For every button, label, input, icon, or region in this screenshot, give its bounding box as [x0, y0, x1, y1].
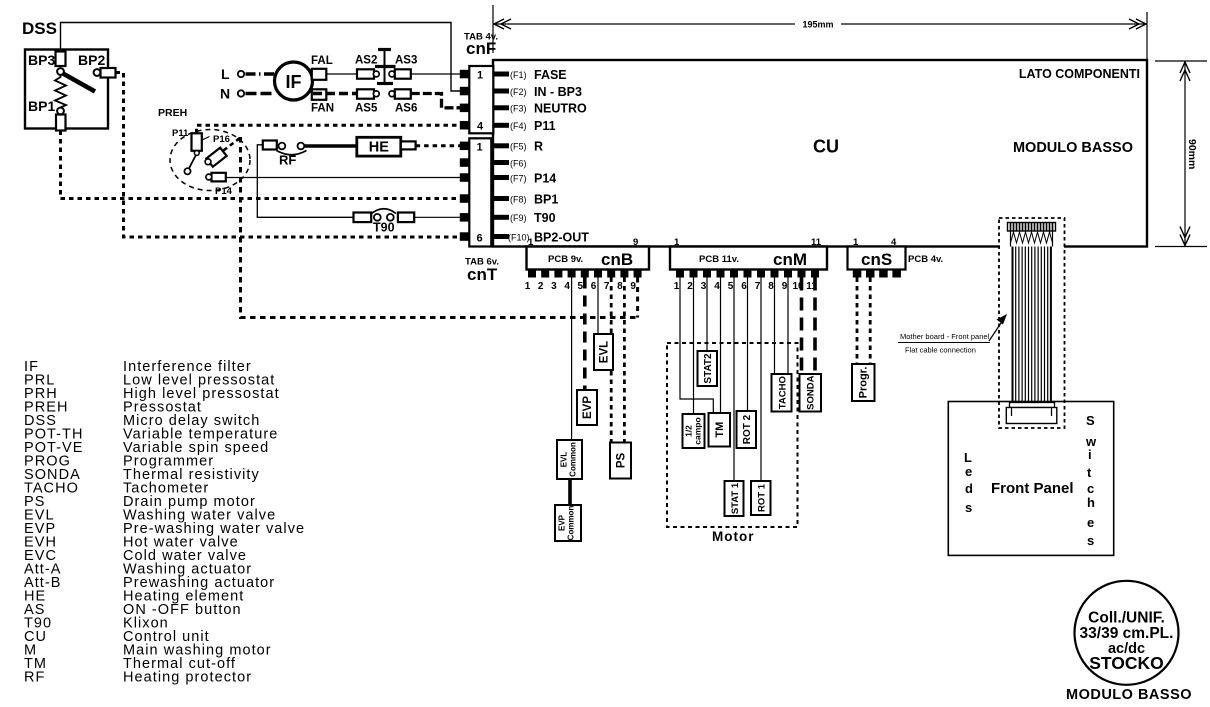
- cnB pins row: [528, 270, 642, 278]
- svg-text:11: 11: [811, 237, 822, 248]
- svg-text:FASE: FASE: [534, 68, 567, 82]
- drain pump PS: [610, 443, 631, 479]
- push button AS shaft: [384, 50, 386, 85]
- svg-text:1: 1: [525, 281, 531, 292]
- wire cnM pin9 to TACHO: [787, 278, 789, 375]
- svg-text:FAL: FAL: [311, 55, 333, 67]
- P14 contact node: [206, 174, 212, 180]
- board pin stub F2: [494, 89, 510, 94]
- svg-text:(F2): (F2): [510, 87, 527, 97]
- svg-text:BP1: BP1: [534, 192, 558, 206]
- svg-text:P16: P16: [213, 134, 230, 145]
- terminal N: [238, 90, 244, 96]
- dimension 195mm extension left: [492, 5, 494, 53]
- svg-text:Front Panel: Front Panel: [991, 480, 1074, 497]
- wire cnM pin10 to SONDA (thick long dash): [800, 278, 804, 375]
- svg-text:Flat cable connection: Flat cable connection: [905, 346, 976, 355]
- wire P16 diagonal (dashed): [224, 138, 241, 151]
- P11 lever: [189, 155, 196, 168]
- dimension 195mm line: [493, 23, 1147, 25]
- board pin stub F4: [494, 123, 510, 128]
- svg-text:TACHO: TACHO: [778, 376, 789, 409]
- svg-text:TM: TM: [714, 422, 726, 438]
- svg-text:i: i: [1088, 447, 1092, 462]
- terminal BP2: [101, 68, 116, 78]
- terminal P14: [212, 173, 226, 182]
- svg-text:8: 8: [768, 281, 774, 292]
- svg-text:BP2: BP2: [78, 52, 105, 68]
- svg-text:(F9): (F9): [510, 213, 527, 223]
- switch DSS box: [25, 50, 108, 129]
- svg-text:195mm: 195mm: [802, 20, 833, 30]
- svg-text:SONDA: SONDA: [806, 375, 817, 409]
- svg-text:Motor: Motor: [712, 529, 755, 544]
- cnF pin 4: [460, 121, 470, 130]
- terminal AS3: [395, 69, 411, 78]
- svg-text:4: 4: [477, 121, 484, 133]
- wire AS3 to cnF pin F1: [411, 73, 463, 75]
- winding STAT2: [698, 351, 718, 386]
- svg-text:S: S: [1086, 413, 1095, 428]
- svg-text:PCB 11v.: PCB 11v.: [699, 254, 739, 265]
- wire P11 to cnF pin F4 (dashed): [197, 125, 464, 133]
- svg-text:HE: HE: [369, 140, 389, 156]
- cnT pin 1: [460, 142, 470, 151]
- svg-text:AS3: AS3: [395, 55, 417, 67]
- cnT pin 3: [460, 173, 470, 182]
- svg-text:4: 4: [564, 281, 570, 292]
- klixon T90 contacts: [374, 214, 381, 221]
- connector cnF body: [469, 66, 493, 133]
- contact tick P11: [202, 137, 210, 141]
- control unit CU board: [493, 60, 1147, 247]
- cnT pin 2: [460, 158, 470, 167]
- svg-text:P11: P11: [172, 128, 189, 139]
- white patch under flat cable region: [1000, 244, 1064, 250]
- wire T90 to cnT pin F9: [414, 216, 463, 218]
- terminal HE right: [401, 141, 416, 149]
- svg-text:AS5: AS5: [355, 103, 378, 115]
- terminal FAL: [312, 69, 327, 80]
- legend list: [24, 359, 305, 686]
- terminal BP3: [56, 52, 66, 67]
- svg-text:EVL: EVL: [599, 341, 611, 363]
- svg-text:(F8): (F8): [510, 194, 527, 204]
- svg-text:4: 4: [714, 281, 720, 292]
- terminal P16 (rotated): [206, 148, 226, 167]
- svg-text:T90: T90: [534, 211, 556, 225]
- wire RF left terminal down to T90 line: [257, 145, 353, 218]
- sensor SONDA: [800, 374, 822, 412]
- svg-text:cnT: cnT: [467, 265, 498, 284]
- thermal cut-off TM: [709, 413, 731, 447]
- svg-text:MODULO BASSO: MODULO BASSO: [1066, 687, 1192, 703]
- svg-text:R: R: [534, 140, 543, 154]
- wire cnB pin8 to PS (dashed): [623, 278, 626, 443]
- wire FAL to AS2: [326, 73, 357, 75]
- heating element HE: [357, 137, 401, 156]
- wire cnM pin7 to ROT 1: [760, 278, 762, 482]
- contact AS2: [373, 71, 379, 77]
- svg-text:e: e: [1087, 515, 1094, 530]
- terminal P11: [192, 133, 202, 151]
- svg-text:DSS: DSS: [22, 19, 57, 38]
- svg-text:L: L: [964, 450, 972, 465]
- wire L to IF (dash-dot): [246, 72, 276, 75]
- flat cable bottom connector: [1010, 403, 1055, 408]
- wire N to IF (dashed): [246, 92, 276, 95]
- wire cnB pin6 to EVL: [597, 278, 599, 335]
- winding STAT 1: [725, 481, 744, 516]
- wire EVL Common to EVP Common (thick): [568, 479, 572, 505]
- svg-text:ROT 2: ROT 2: [742, 414, 753, 444]
- terminal FAN: [312, 89, 327, 100]
- cnT pin 4: [460, 194, 470, 203]
- board pin stub F6: [494, 160, 510, 165]
- svg-text:Coll./UNIF.: Coll./UNIF.: [1088, 610, 1165, 627]
- svg-text:Progr.: Progr.: [858, 367, 870, 399]
- svg-text:9: 9: [630, 281, 636, 292]
- svg-text:3: 3: [701, 281, 707, 292]
- valve EVP: [577, 390, 597, 425]
- svg-text:BP3: BP3: [28, 52, 55, 68]
- terminal T90 right: [398, 213, 414, 223]
- svg-text:1: 1: [528, 237, 534, 248]
- board pin stub F7: [494, 175, 510, 180]
- board pin stub F5: [494, 143, 510, 148]
- dimension 90mm bottom bar: [1155, 246, 1207, 248]
- cnS pins row: [853, 270, 901, 278]
- flat cable boundary (dashed box): [999, 218, 1065, 428]
- svg-text:cnS: cnS: [861, 250, 892, 269]
- svg-text:CU: CU: [813, 137, 839, 157]
- svg-text:BP2-OUT: BP2-OUT: [534, 230, 589, 244]
- cnM pin numbers: [674, 281, 818, 292]
- label Leds: [964, 450, 973, 515]
- terminal AS2: [357, 69, 374, 78]
- svg-text:(F5): (F5): [510, 142, 527, 152]
- winding ROT 1: [751, 481, 771, 515]
- flat cable ribbon wires: [1013, 247, 1051, 403]
- svg-text:1: 1: [674, 237, 680, 248]
- wire cnB pin7 to PS (dashed): [610, 278, 613, 443]
- svg-text:MODULO BASSO: MODULO BASSO: [1013, 140, 1133, 156]
- cnF pin 1: [460, 70, 470, 79]
- svg-text:9: 9: [782, 281, 788, 292]
- connector cnM body: [670, 247, 827, 270]
- wire cnM pin1 to TM: [680, 278, 713, 414]
- connector cnT body: [469, 138, 491, 246]
- wire BP1 to cnT pin F8 (dashed): [61, 131, 464, 199]
- svg-text:Common: Common: [569, 442, 578, 477]
- svg-text:L: L: [221, 66, 230, 82]
- svg-text:1: 1: [477, 142, 483, 154]
- board pin stub F10: [494, 234, 510, 239]
- node EVL Common: [557, 440, 582, 479]
- terminal RF left: [263, 141, 277, 150]
- svg-text:4: 4: [891, 237, 897, 248]
- svg-text:cnB: cnB: [601, 250, 633, 269]
- dimension 195mm extension right: [1146, 12, 1148, 60]
- svg-text:campo: campo: [693, 417, 703, 444]
- svg-text:P11: P11: [534, 119, 556, 133]
- winding ROT 2: [737, 411, 757, 448]
- switch lever: [63, 74, 95, 92]
- svg-text:h: h: [1087, 495, 1095, 510]
- svg-text:7: 7: [604, 281, 610, 292]
- P16 contact node: [205, 159, 211, 165]
- svg-text:T90: T90: [373, 221, 395, 235]
- svg-text:PCB 4v.: PCB 4v.: [908, 254, 943, 265]
- wire cnM pin4 to TM: [720, 278, 722, 414]
- svg-text:1: 1: [853, 237, 859, 248]
- svg-text:RF: RF: [279, 153, 296, 168]
- dimension 90mm line: [1184, 61, 1186, 247]
- P11 contact node: [184, 168, 190, 174]
- svg-text:2: 2: [538, 281, 544, 292]
- svg-text:s: s: [1087, 533, 1094, 548]
- svg-text:33/39 cm.PL.: 33/39 cm.PL.: [1080, 625, 1174, 642]
- svg-text:cnM: cnM: [773, 250, 807, 269]
- tachometer TACHO: [772, 374, 792, 412]
- dimension 90mm top bar: [1155, 60, 1207, 62]
- svg-text:ROT 1: ROT 1: [757, 483, 768, 512]
- svg-text:Common: Common: [567, 506, 576, 541]
- svg-text:9: 9: [633, 237, 638, 248]
- wire cnB pin9 down to P16 line (dashed): [636, 278, 639, 318]
- node BP2: [94, 69, 101, 76]
- svg-text:1: 1: [477, 70, 483, 82]
- svg-text:8: 8: [617, 281, 623, 292]
- wire cnS pin2 to Progr. (dashed): [869, 278, 872, 365]
- arrow to flat cable: [989, 320, 1003, 341]
- cnT pin 5: [460, 213, 470, 222]
- svg-text:STAT2: STAT2: [703, 353, 714, 384]
- board pin stub F3: [494, 105, 510, 110]
- switch pivot node: [57, 68, 64, 75]
- motor boundary (dashed box): [667, 343, 798, 527]
- wire IF to AS5 (dashed): [313, 92, 357, 95]
- svg-text:PCB 9v.: PCB 9v.: [548, 254, 583, 265]
- wire HE to cnT pin F5 (dashed): [416, 144, 463, 147]
- board pin stub F8: [494, 196, 510, 201]
- contact AS3: [389, 71, 395, 77]
- contact AS6: [389, 91, 395, 97]
- svg-text:5: 5: [578, 281, 584, 292]
- svg-text:(F7): (F7): [510, 173, 527, 183]
- svg-text:STOCKO: STOCKO: [1089, 653, 1164, 673]
- wire P16 down and right to cnB pin 9 (dashed): [241, 137, 638, 318]
- terminal L: [238, 71, 244, 77]
- cnB pin numbers: [525, 281, 637, 292]
- programmer Progr.: [852, 364, 875, 401]
- cnT pin 6: [460, 232, 470, 241]
- svg-text:PS: PS: [616, 453, 628, 469]
- svg-text:6: 6: [477, 233, 483, 245]
- node BP1: [57, 108, 64, 115]
- flat cable top connector: [1008, 223, 1056, 232]
- svg-text:NEUTRO: NEUTRO: [534, 102, 587, 116]
- wire cnS pin1 to Progr. (dashed): [856, 278, 859, 365]
- heating protector RF contacts: [279, 143, 286, 150]
- svg-text:N: N: [220, 86, 230, 102]
- terminal T90 left: [354, 213, 372, 223]
- svg-text:AS2: AS2: [355, 55, 377, 67]
- svg-text:7: 7: [755, 281, 761, 292]
- interference filter IF: [275, 62, 313, 100]
- svg-text:(F1): (F1): [510, 70, 527, 80]
- wire cnB pin4 to EVL Common: [571, 278, 573, 441]
- svg-text:IN - BP3: IN - BP3: [534, 85, 582, 99]
- resistor BP3-BP1: [55, 75, 66, 108]
- wire cnM pin2 to 1/2 campo: [693, 278, 695, 415]
- svg-text:AS6: AS6: [395, 103, 417, 115]
- node EVP Common: [555, 505, 581, 541]
- RF bimetal arc: [277, 151, 307, 155]
- board pin stub F1: [494, 72, 510, 77]
- svg-text:BP1: BP1: [28, 98, 55, 114]
- svg-text:Heating protector: Heating protector: [123, 670, 252, 686]
- valve EVL: [594, 334, 613, 370]
- pressostat PREH boundary (dashed ellipse): [170, 130, 250, 191]
- cnF pin 2: [460, 87, 470, 96]
- svg-text:IF: IF: [286, 72, 302, 92]
- terminal BP1: [56, 115, 66, 131]
- svg-text:FAN: FAN: [311, 103, 334, 115]
- wire cnM pin5 to STAT 1: [733, 278, 735, 482]
- P11 pivot: [194, 151, 199, 156]
- svg-text:3: 3: [551, 281, 557, 292]
- wire RF to HE (thick): [304, 144, 357, 148]
- svg-text:6: 6: [741, 281, 747, 292]
- wire cnB pin5 to EVP (thick long dash): [583, 278, 587, 391]
- wire cnM pin3 to STAT2: [706, 278, 708, 352]
- svg-text:90mm: 90mm: [1186, 139, 1198, 169]
- cnM pins row: [676, 270, 819, 278]
- wire cnM pin8 to TACHO: [774, 278, 776, 375]
- svg-text:(F4): (F4): [510, 121, 527, 131]
- svg-text:RF: RF: [24, 670, 45, 686]
- svg-text:d: d: [965, 481, 973, 496]
- wire cnM pin11 to SONDA (thick long dash): [813, 278, 817, 375]
- wire P14 to cnT pin F7: [226, 177, 463, 179]
- cnF pin 3: [460, 104, 470, 113]
- svg-text:EVP: EVP: [582, 396, 594, 419]
- svg-text:1: 1: [674, 281, 680, 292]
- terminal AS6: [395, 89, 411, 98]
- svg-text:PREH: PREH: [158, 107, 187, 119]
- connector cnB body: [527, 247, 650, 270]
- svg-text:2: 2: [687, 281, 693, 292]
- contact AS5: [373, 91, 379, 97]
- svg-text:Mother board - Front panel: Mother board - Front panel: [900, 332, 990, 341]
- svg-text:cnF: cnF: [466, 39, 496, 58]
- wire AS6 to cnF pin F3 (thick dashed): [411, 94, 461, 108]
- terminal AS5: [357, 89, 374, 98]
- flat cable crimp zigzag: [1011, 232, 1053, 243]
- svg-text:5: 5: [728, 281, 734, 292]
- svg-text:t: t: [1087, 465, 1092, 480]
- stamp circle STOCKO: [1075, 581, 1179, 685]
- svg-text:EVL: EVL: [560, 452, 569, 468]
- svg-text:STAT 1: STAT 1: [730, 482, 741, 514]
- wire DSS top terminal to cnF pin F2: [61, 23, 464, 92]
- svg-text:(F3): (F3): [510, 104, 527, 114]
- svg-text:s: s: [965, 500, 972, 515]
- svg-text:(F6): (F6): [510, 158, 527, 168]
- wire BP2 to cnT pin F10 (dashed): [116, 73, 464, 238]
- svg-text:e: e: [965, 464, 972, 479]
- svg-text:6: 6: [591, 281, 597, 292]
- connector cnS body: [848, 247, 906, 270]
- svg-text:P14: P14: [215, 186, 233, 197]
- svg-text:EVP: EVP: [558, 514, 567, 531]
- front panel box: [948, 402, 1113, 556]
- svg-text:P14: P14: [534, 171, 556, 185]
- svg-text:(F10): (F10): [508, 232, 530, 242]
- label Switches: [1085, 413, 1097, 548]
- T90 bimetal arc: [372, 209, 397, 214]
- wire cnM pin6 to ROT 2: [747, 278, 749, 412]
- board pin stub F9: [494, 215, 510, 220]
- winding 1/2 campo: [683, 414, 705, 448]
- svg-text:c: c: [1087, 481, 1094, 496]
- svg-text:LATO COMPONENTI: LATO COMPONENTI: [1019, 67, 1140, 81]
